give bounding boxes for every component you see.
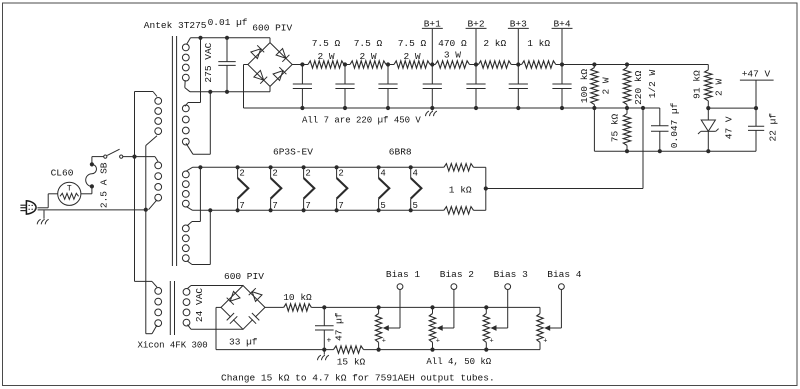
svg-text:2: 2: [305, 169, 310, 179]
svg-text:100 kΩ: 100 kΩ: [579, 69, 590, 104]
svg-text:7: 7: [305, 201, 310, 211]
diode D1d: [273, 71, 283, 81]
svg-text:15 kΩ: 15 kΩ: [337, 356, 366, 367]
tube heater 1 pins 2/7: [236, 165, 240, 169]
svg-text:All 4, 50 kΩ: All 4, 50 kΩ: [426, 357, 491, 367]
svg-text:B+3: B+3: [510, 19, 527, 30]
svg-text:7: 7: [272, 201, 277, 211]
ground symbol bias: [323, 350, 325, 355]
neutral rail L2: [145, 146, 147, 334]
svg-text:220 kΩ: 220 kΩ: [633, 70, 644, 105]
svg-text:+: +: [436, 337, 440, 345]
svg-text:Bias 1: Bias 1: [386, 269, 421, 280]
wire neutral: [38, 209, 146, 211]
power switch: [104, 155, 107, 158]
wire hot to CL60: [37, 207, 48, 209]
bias pot 2 50k: [430, 305, 434, 309]
capacitor 22 uf: [748, 125, 764, 127]
bias terminal Bias 2: [453, 290, 455, 328]
diode D2b: [252, 292, 262, 302]
bias pot 1 50k: [377, 305, 381, 309]
capacitor C4 220uf: [423, 83, 442, 85]
resistor 1k bottom (humdinger): [444, 207, 474, 214]
T1 heater winding D (parallel): [182, 225, 189, 232]
svg-text:7.5 Ω: 7.5 Ω: [354, 38, 383, 49]
wire 24V bottom: [191, 328, 243, 330]
wire 275V bottom: [190, 91, 270, 93]
svg-text:47 V: 47 V: [724, 116, 735, 139]
wire 24V top: [191, 285, 243, 287]
bias top wire: [324, 306, 540, 308]
resistor R5 2 kΩ: [478, 61, 511, 68]
bias terminal Bias 1: [399, 290, 401, 328]
svg-text:1/2 W: 1/2 W: [647, 69, 658, 98]
resistor 91k 2W: [707, 65, 709, 70]
svg-text:6P3S-EV: 6P3S-EV: [273, 146, 313, 157]
T2 primary: [155, 288, 162, 295]
lower ground bus link: [593, 108, 595, 151]
svg-text:600 PIV: 600 PIV: [252, 23, 292, 34]
svg-text:275 VAC: 275 VAC: [203, 42, 214, 82]
svg-text:+: +: [490, 337, 494, 345]
svg-text:+: +: [543, 337, 547, 345]
resistor 1k top (humdinger): [444, 164, 474, 171]
T1 secondary winding B (parallel 275V): [182, 105, 189, 112]
doubler cap mark left: [231, 317, 233, 320]
svg-text:T: T: [67, 185, 72, 194]
heater bus bottom: [193, 209, 444, 211]
svg-text:4: 4: [413, 169, 418, 179]
svg-text:2 kΩ: 2 kΩ: [483, 38, 506, 49]
tube heater 4 pins 2/7: [335, 165, 339, 169]
svg-text:Change 15 kΩ to 4.7 kΩ for 759: Change 15 kΩ to 4.7 kΩ for 7591AEH outpu…: [221, 372, 495, 383]
thermistor CL60: [58, 182, 81, 205]
svg-text:2: 2: [272, 169, 277, 179]
heater elevation wire: [641, 106, 645, 110]
resistor R2 7.5 Ω: [350, 61, 386, 68]
svg-text:B+4: B+4: [553, 19, 570, 30]
bias bottom bus: [216, 349, 334, 351]
svg-text:Bias 4: Bias 4: [547, 269, 582, 280]
T1 secondary 275 VAC winding A: [182, 44, 189, 51]
svg-text:2.5 A SB: 2.5 A SB: [99, 162, 110, 208]
svg-text:Antek 3T275: Antek 3T275: [144, 20, 207, 31]
bias minus line: [216, 306, 221, 308]
safety ground: [43, 210, 45, 219]
resistor R3 7.5 Ω: [394, 61, 430, 68]
wire fuse to switch: [91, 157, 93, 165]
T2 secondary 24 VAC: [183, 289, 190, 296]
B+ rail: [302, 64, 308, 66]
svg-text:7: 7: [239, 201, 244, 211]
resistor 220k 1/2W: [625, 62, 629, 66]
T1 primary P2: [155, 162, 162, 169]
svg-text:+: +: [327, 337, 332, 346]
resistor R4 470 Ω: [435, 61, 469, 68]
svg-text:7: 7: [338, 201, 343, 211]
svg-text:600 PIV: 600 PIV: [224, 271, 264, 282]
svg-text:5: 5: [380, 201, 385, 211]
bias terminal Bias 4: [560, 290, 562, 328]
diode D1a: [251, 49, 261, 59]
capacitor C3 220uf: [378, 83, 397, 85]
svg-text:33 µf: 33 µf: [229, 337, 258, 348]
tube heater 6 pins 4/5: [409, 165, 413, 169]
ground symbol at B+1: [431, 108, 433, 111]
svg-text:1 kΩ: 1 kΩ: [449, 185, 472, 196]
bias pot 4 50k: [539, 307, 541, 313]
svg-text:2 W: 2 W: [317, 51, 334, 62]
fuse 2.5 A SB: [90, 184, 94, 188]
svg-text:2 W: 2 W: [359, 51, 376, 62]
wire bridge minus: [243, 65, 245, 109]
T1 heater winding C 6.3V: [182, 171, 189, 178]
svg-text:7.5 Ω: 7.5 Ω: [398, 38, 427, 49]
svg-text:0.047 µf: 0.047 µf: [669, 102, 680, 148]
svg-text:B+2: B+2: [467, 19, 484, 30]
capacitor C5 220uf: [466, 83, 485, 85]
wire CL60 to fuse: [81, 193, 92, 195]
capacitor C7 220uf: [552, 83, 571, 85]
svg-text:2 W: 2 W: [403, 51, 420, 62]
capacitor 0.047 uf: [659, 108, 661, 126]
svg-text:2: 2: [338, 169, 343, 179]
capacitor C6 220uf: [509, 83, 528, 85]
diode D2a: [230, 291, 240, 301]
svg-text:10 kΩ: 10 kΩ: [283, 292, 312, 303]
capacitor C2 220uf: [335, 83, 354, 85]
resistor R6 1 kΩ: [522, 61, 556, 68]
bias pot 3 50k: [484, 305, 488, 309]
resistor 75k: [623, 114, 630, 146]
humdinger midpoint: [485, 167, 487, 210]
capacitor C1 220uf: [293, 83, 312, 85]
wire switch to primary: [123, 156, 155, 158]
svg-text:6BR8: 6BR8: [389, 146, 412, 157]
svg-text:5: 5: [413, 201, 418, 211]
resistor 100k 2W: [592, 62, 596, 66]
doubler cap mark right: [253, 317, 255, 320]
heater bus top: [193, 166, 444, 168]
tube heater 5 pins 4/5: [377, 165, 381, 169]
svg-text:0.01 µf: 0.01 µf: [208, 17, 248, 28]
diode D1b: [276, 49, 286, 59]
svg-text:2 W: 2 W: [714, 79, 725, 96]
svg-text:2 W: 2 W: [601, 77, 612, 94]
resistor 15k: [334, 346, 364, 353]
T2 core: [169, 281, 171, 335]
svg-text:B+1: B+1: [424, 19, 441, 30]
svg-text:Bias 3: Bias 3: [494, 269, 529, 280]
svg-text:1 kΩ: 1 kΩ: [527, 38, 550, 49]
T1 core: [171, 36, 173, 266]
svg-text:CL60: CL60: [51, 168, 74, 179]
svg-text:All 7 are 220 µf 450 V: All 7 are 220 µf 450 V: [302, 116, 421, 126]
svg-text:3 W: 3 W: [444, 50, 461, 61]
diode D1c: [254, 70, 264, 80]
bias terminal Bias 3: [507, 290, 509, 328]
ground bus: [244, 107, 660, 109]
svg-text:22 µf: 22 µf: [767, 113, 778, 142]
svg-text:24 VAC: 24 VAC: [194, 288, 205, 323]
svg-text:4: 4: [380, 169, 385, 179]
svg-text:47 µf: 47 µf: [334, 312, 345, 341]
resistor R1 7.5 Ω: [308, 61, 344, 68]
tube heater 2 pins 2/7: [269, 165, 273, 169]
svg-text:2: 2: [239, 169, 244, 179]
svg-text:91 kΩ: 91 kΩ: [692, 70, 703, 99]
AC plug: [26, 201, 36, 214]
svg-text:470 Ω: 470 Ω: [438, 38, 467, 49]
svg-text:+47 V: +47 V: [742, 69, 771, 80]
capacitor 47 uf: [322, 305, 326, 309]
tube heater 3 pins 2/7: [302, 165, 306, 169]
node +47V wire: [708, 107, 756, 109]
svg-text:Bias 2: Bias 2: [440, 269, 475, 280]
svg-text:Xicon 4FK 300: Xicon 4FK 300: [138, 340, 208, 350]
hot rail L1: [134, 92, 136, 282]
resistor 10k: [265, 306, 284, 308]
svg-text:+: +: [382, 337, 386, 345]
svg-text:7.5 Ω: 7.5 Ω: [312, 38, 341, 49]
wire 275V top: [191, 37, 271, 39]
T1 primary P1: [155, 98, 162, 105]
svg-text:75 kΩ: 75 kΩ: [610, 113, 621, 142]
zener diode 47 V: [707, 108, 709, 120]
